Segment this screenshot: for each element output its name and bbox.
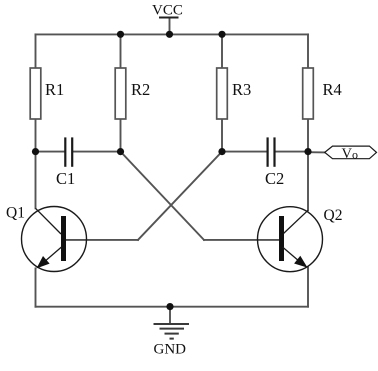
wire C1 right plate to node B: [73, 151, 120, 153]
wire node D to Vo flag: [308, 151, 325, 153]
junction dot top rail / R2: [117, 31, 124, 38]
transistor Q2 emitter arrowhead: [294, 256, 307, 268]
junction dot node B (R2/C1/Q2 base): [117, 148, 124, 155]
transistor Q2 collector stroke: [284, 210, 309, 233]
transistor Q1 circle: [22, 207, 87, 272]
wire node A to C1 left plate: [36, 151, 65, 153]
transistor Q1 emitter arrowhead: [37, 256, 50, 268]
wire cross-coupling node C to Q1 base (diagonal): [138, 152, 222, 240]
wire node C to C2 left plate: [222, 151, 267, 153]
svg-text:GND: GND: [154, 342, 187, 358]
wire C2 right plate to node D: [275, 151, 308, 153]
wire R2 bottom lead: [120, 119, 122, 152]
wire cross-coupling node B to Q2 base (diagonal): [121, 152, 205, 240]
wire R4 bottom lead: [307, 119, 309, 152]
transistor Q2 base bar: [279, 216, 284, 261]
wire bottom rail GND: [36, 306, 309, 308]
wire R3 top lead: [221, 34, 223, 68]
svg-text:R3: R3: [232, 80, 251, 99]
svg-text:R2: R2: [131, 80, 150, 99]
junction dot node A (R1/C1/Q1 collector): [32, 148, 39, 155]
resistor R3: [217, 68, 228, 119]
wire Q2 emitter lead: [307, 268, 309, 307]
wire Q1 collector lead: [35, 152, 37, 209]
net flag Vo: [325, 146, 377, 159]
resistor R4: [303, 68, 314, 119]
wire R2 top lead: [120, 34, 122, 68]
junction dot top rail / R3: [218, 31, 225, 38]
transistor Q2 circle: [258, 207, 323, 272]
wire Q1 base lead (horizontal): [66, 239, 138, 241]
power symbol VCC bar: [159, 17, 179, 19]
svg-text:Q2: Q2: [324, 207, 343, 224]
transistor Q1 base bar: [61, 216, 66, 261]
transistor Q1 emitter stroke: [40, 247, 62, 266]
svg-text:VCC: VCC: [152, 3, 183, 19]
capacitor C1 plates: [65, 137, 72, 166]
junction dot top rail / VCC: [166, 31, 173, 38]
svg-text:Q1: Q1: [6, 205, 25, 222]
wire Q2 base lead (horizontal): [204, 239, 279, 241]
transistor Q1 collector stroke: [36, 208, 62, 234]
junction dot node C (R3/C2/Q1 base): [218, 148, 225, 155]
wire Q1 emitter lead: [35, 268, 37, 306]
wire top rail VCC: [36, 33, 309, 35]
wire R1 top lead: [35, 34, 37, 68]
resistor R1: [30, 68, 41, 119]
capacitor C2 plates: [268, 137, 275, 166]
resistor R2: [115, 68, 126, 119]
svg-text:Vo: Vo: [342, 146, 358, 162]
wire R4 top lead: [307, 34, 309, 68]
transistor Q2 emitter stroke: [283, 247, 304, 265]
junction dot bottom rail / GND: [166, 303, 173, 310]
svg-text:C2: C2: [265, 169, 284, 188]
svg-text:R1: R1: [45, 80, 64, 99]
wire VCC stub: [169, 18, 171, 35]
svg-text:C1: C1: [56, 169, 75, 188]
wire GND stub: [169, 307, 171, 324]
ground symbol GND: [154, 324, 190, 339]
wire R3 bottom lead: [221, 119, 223, 152]
wire Q2 collector lead: [307, 152, 309, 211]
wire R1 bottom lead: [35, 119, 37, 152]
svg-text:R4: R4: [323, 80, 342, 99]
junction dot node D (R4/C2/Vo): [304, 148, 311, 155]
